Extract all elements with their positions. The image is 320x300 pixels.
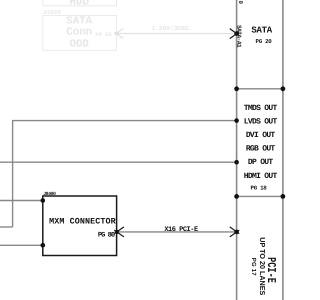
- connector J4921 SATA Conn HDD (faint, cropped at top): [43, 0, 117, 6]
- svg-text:PG 18: PG 18: [251, 185, 268, 192]
- section divider wire y196.4: [237, 195, 283, 197]
- svg-text:PG 65: PG 65: [95, 32, 111, 38]
- junction dot MXM upper: [41, 198, 46, 203]
- wire X16 PCI-E: [117, 231, 237, 233]
- arrowhead SATA-A1 into bus (open V): [230, 29, 239, 39]
- junction dot PCI-E at bus: [234, 230, 239, 235]
- svg-text:Conn: Conn: [66, 26, 92, 38]
- junction dot MXM lower: [41, 243, 46, 248]
- svg-text:X16 PCI-E: X16 PCI-E: [164, 226, 198, 234]
- wire SATA ODD to SATA bus (faint): [117, 33, 233, 35]
- svg-text:UP TO 20 LANES: UP TO 20 LANES: [258, 237, 267, 295]
- junction dot SATA-A1: [234, 31, 239, 36]
- svg-text:0: 0: [237, 0, 244, 4]
- arrowhead into PCI-E bus (open V): [230, 227, 239, 237]
- wire DP OUT: [0, 161, 237, 163]
- connector J8400 MXM CONNECTOR box: [43, 196, 117, 256]
- svg-text:PG 86: PG 86: [98, 232, 115, 240]
- junction dot bus B at y196.4: [281, 194, 286, 199]
- wire exit left at y227: [0, 226, 13, 228]
- svg-text:TMDS OUT: TMDS OUT: [244, 104, 278, 113]
- junction dot DP at bus: [234, 160, 239, 165]
- junction dot LVDS at bus: [234, 118, 239, 123]
- junction dot bus B at y88.8: [281, 86, 286, 91]
- section divider wire y88.8: [237, 88, 283, 90]
- svg-text:HDMI OUT: HDMI OUT: [244, 172, 278, 181]
- svg-text:LVDS OUT: LVDS OUT: [244, 118, 278, 127]
- svg-text:SATA-A1: SATA-A1: [236, 25, 243, 48]
- svg-text:PG 20: PG 20: [256, 38, 273, 45]
- junction dot bus A at y88.8: [234, 86, 239, 91]
- connector J4920 SATA Conn ODD (faint box): [43, 16, 117, 51]
- arrowhead into MXM (open V): [114, 227, 124, 237]
- junction dot bus A at y196.4: [234, 194, 239, 199]
- svg-text:PG 17: PG 17: [250, 258, 257, 276]
- wire MXM pin lower: [0, 244, 43, 246]
- svg-text:MXM CONNECTOR: MXM CONNECTOR: [49, 216, 117, 226]
- wire MXM pin upper: [0, 200, 43, 202]
- svg-text:RGB OUT: RGB OUT: [246, 144, 276, 153]
- svg-text:J8400: J8400: [43, 191, 56, 197]
- bus line A (left vertical): [236, 0, 238, 300]
- svg-text:SATA: SATA: [251, 26, 272, 36]
- svg-text:ODD: ODD: [69, 39, 89, 51]
- svg-text:DP OUT: DP OUT: [248, 158, 274, 167]
- arrowhead into ODD box (faint open V): [114, 29, 123, 39]
- wire LVDS OUT: [13, 121, 237, 227]
- svg-text:J4920: J4920: [43, 9, 61, 16]
- bus line B (right vertical): [282, 0, 284, 300]
- svg-text:DVI OUT: DVI OUT: [246, 131, 276, 140]
- svg-text:1.5GV/3GBS.: 1.5GV/3GBS.: [152, 25, 193, 32]
- svg-text:HDD: HDD: [69, 0, 89, 8]
- tip dot at MXM arrow: [115, 230, 119, 234]
